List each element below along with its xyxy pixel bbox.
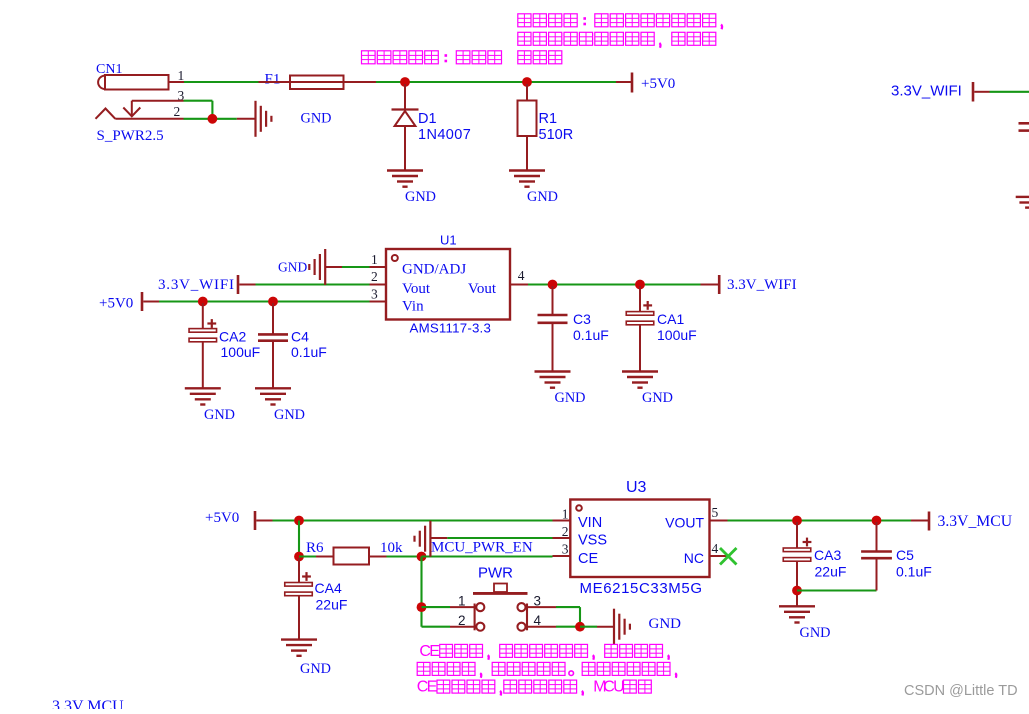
capacitor CA3 plus: [803, 541, 812, 543]
U1 pin1 stub: [370, 266, 387, 268]
diode D1 triangle: [395, 111, 416, 126]
svg-text:3.3V_WIFI: 3.3V_WIFI: [727, 277, 797, 293]
wire pin3 down: [211, 101, 213, 119]
svg-text:100uF: 100uF: [657, 327, 697, 343]
svg-text:22uF: 22uF: [815, 564, 847, 580]
svg-text:3.3V_MCU: 3.3V_MCU: [938, 513, 1013, 530]
port bar 3.3V_MCU: [928, 512, 931, 531]
resistor R1 body: [518, 101, 537, 137]
capacitor CA3 plates: [783, 548, 811, 552]
ground PWR sideways: [613, 609, 615, 645]
junction R1: [522, 77, 532, 87]
U1 pin4 stub: [510, 284, 528, 286]
svg-text:C3: C3: [573, 311, 591, 327]
svg-text:Vin: Vin: [402, 299, 424, 315]
svg-text:3: 3: [562, 542, 569, 557]
junction button pin1: [417, 602, 427, 612]
regulator U3 box: [570, 500, 709, 578]
ground CA1: [622, 370, 658, 372]
svg-text:3.3V MCU: 3.3V MCU: [52, 698, 124, 709]
wire CA3 to C5 bottom: [797, 589, 877, 591]
power port 3.3V_WIFI top right bar: [972, 82, 975, 102]
U1 pin2 stub: [370, 284, 387, 286]
ground R1: [509, 169, 545, 171]
ground CA2: [185, 387, 221, 389]
junction D1: [400, 77, 410, 87]
svg-text:GND: GND: [642, 390, 673, 406]
svg-text:2: 2: [458, 613, 466, 628]
svg-text:R6: R6: [306, 540, 324, 556]
wire junction to R6: [299, 555, 316, 557]
junction CA4 lead: [298, 558, 300, 583]
capacitor C5 lead: [876, 522, 878, 552]
U3 pin4 stub: [710, 555, 728, 557]
svg-text:F1: F1: [265, 72, 281, 88]
svg-text:CN1: CN1: [96, 62, 122, 77]
svg-text:CA2: CA2: [219, 329, 246, 345]
capacitor CA2 plus: [207, 322, 216, 324]
ground partial right edge: [1016, 196, 1029, 198]
svg-text:3.3V_WIFI: 3.3V_WIFI: [891, 83, 962, 100]
svg-text:1: 1: [178, 68, 185, 83]
capacitor CA3 lead: [796, 522, 798, 548]
fuse F1 lead line: [259, 81, 377, 83]
svg-text:R1: R1: [539, 111, 558, 127]
svg-text:GND: GND: [301, 111, 332, 127]
CN1 pin 3 lead: [132, 100, 184, 102]
junction R6 CA4: [294, 552, 304, 562]
svg-text:4: 4: [518, 268, 525, 283]
wire pin2: [184, 118, 237, 120]
wire MCU_PWR_EN to CE: [422, 555, 553, 557]
CN1 switch zigzag: [96, 109, 116, 119]
svg-text:GND: GND: [278, 260, 307, 275]
junction CA3 bottom: [792, 586, 802, 596]
svg-text:VIN: VIN: [578, 515, 602, 531]
wire down to button: [420, 557, 422, 627]
switch PWR right bracket: [526, 604, 528, 631]
capacitor C4 plates: [258, 333, 288, 336]
switch PWR contact circles: [476, 603, 484, 611]
svg-text:1: 1: [562, 507, 569, 522]
junction at CN1 ground: [208, 114, 218, 124]
wire 3.3V_WIFI top right: [974, 91, 989, 93]
capacitor C3 lead: [552, 286, 554, 315]
svg-text:CA4: CA4: [315, 580, 342, 596]
svg-text:GND: GND: [300, 661, 331, 677]
ground stem CN1: [237, 118, 256, 120]
svg-text:C4: C4: [291, 329, 309, 345]
capacitor partial right edge: [1019, 122, 1029, 125]
wire GND to pin1: [342, 266, 370, 268]
wire down to R6 row: [298, 521, 300, 557]
capacitor C4 lead: [272, 303, 274, 334]
wire R6 to junction: [387, 555, 418, 557]
port bar 3.3V_WIFI middle right: [718, 275, 721, 294]
fuse F1 body: [290, 76, 344, 90]
svg-text:GND: GND: [204, 407, 235, 423]
ground stem VSS: [430, 537, 447, 539]
capacitor CA1 lead bottom: [639, 325, 641, 372]
capacitor C3 plates: [538, 314, 568, 317]
svg-text:GND: GND: [527, 189, 558, 205]
ground CA4: [281, 638, 317, 640]
svg-text:GND: GND: [649, 616, 682, 632]
svg-text:100uF: 100uF: [221, 344, 261, 360]
diode D1 cathode bar: [392, 108, 419, 110]
U3 pin stubs left: [553, 520, 571, 522]
wire +5V0 to Vin: [143, 301, 159, 303]
wire VOUT rail: [728, 519, 912, 521]
junction CA1: [635, 280, 645, 290]
capacitor CA4 plates: [285, 583, 313, 587]
ground C4: [255, 387, 291, 389]
junction C4: [268, 297, 278, 307]
ground U1 pin1 sideways: [324, 249, 326, 285]
port bar 3.3V_WIFI middle left: [237, 275, 240, 294]
svg-text:VSS: VSS: [578, 533, 607, 549]
resistor R1 lead top: [526, 84, 528, 101]
note CE line2: [417, 662, 430, 675]
capacitor CA1 lead: [639, 286, 641, 312]
junction C3: [548, 280, 558, 290]
wire pin4 to port: [528, 283, 701, 285]
junction CA3: [792, 516, 802, 526]
svg-text:3: 3: [371, 287, 378, 302]
svg-text:5: 5: [712, 505, 719, 520]
ground stem U1 pin1: [325, 266, 342, 268]
svg-text:GND: GND: [555, 390, 586, 406]
svg-text:AMS1117-3.3: AMS1117-3.3: [410, 321, 492, 336]
svg-text:3.3V_WIFI: 3.3V_WIFI: [158, 277, 235, 293]
diode D1 lead bottom: [404, 126, 406, 171]
svg-text:1: 1: [458, 594, 466, 609]
ground U3 VSS sideways: [429, 521, 431, 557]
wire F1 to D1: [376, 81, 616, 83]
switch PWR actuator bar: [473, 592, 528, 595]
svg-text:+5V0: +5V0: [99, 296, 133, 312]
wire pin1 to F1: [184, 81, 259, 83]
svg-text:510R: 510R: [539, 127, 574, 143]
wire VSS: [447, 537, 552, 539]
svg-text:0.1uF: 0.1uF: [291, 344, 327, 360]
U1 pin1 indicator circle: [392, 255, 398, 261]
svg-text:CSDN @Little TD: CSDN @Little TD: [904, 683, 1018, 699]
svg-text:ME6215C33M5G: ME6215C33M5G: [580, 580, 703, 597]
CN1 pin 1 lead: [169, 81, 185, 83]
switch PWR left bracket: [474, 604, 476, 631]
svg-text:0.1uF: 0.1uF: [896, 564, 932, 580]
note resistor purpose line3: [518, 51, 531, 64]
ground D1: [387, 169, 423, 171]
svg-text:C5: C5: [896, 547, 914, 563]
svg-text:E: E: [427, 679, 438, 696]
CN1 pin 2 lead: [115, 118, 183, 120]
wire 3.3V_WIFI to Vout pin2: [239, 284, 255, 286]
op-amp U1 box: [386, 249, 510, 320]
wire pin3 down: [579, 607, 581, 627]
capacitor CA1 plates: [626, 312, 654, 316]
wire pin3 right: [527, 606, 556, 608]
svg-text:MCU_PWR_EN: MCU_PWR_EN: [431, 540, 533, 556]
wire to pin2: [422, 626, 451, 628]
capacitor C4 lead bottom: [272, 342, 274, 388]
svg-text:0.1uF: 0.1uF: [573, 327, 609, 343]
svg-text:Vout: Vout: [402, 281, 431, 297]
note resistor purpose line2: [518, 32, 531, 45]
ground CN1 sideways: [254, 101, 256, 137]
capacitor CA2 plates: [189, 329, 217, 333]
capacitor CA4 plus: [302, 575, 311, 577]
no-connect X on pin4: [720, 548, 737, 565]
svg-text:CA3: CA3: [814, 547, 841, 563]
capacitor C5 lead bottom: [876, 560, 878, 591]
svg-text:+5V0: +5V0: [205, 510, 239, 526]
resistor R6 lead right: [369, 556, 387, 558]
note resistor purpose line1: [518, 14, 531, 27]
svg-text:2: 2: [174, 104, 181, 119]
svg-text:PWR: PWR: [478, 565, 513, 582]
svg-text:S_PWR2.5: S_PWR2.5: [97, 128, 164, 144]
svg-text:U3: U3: [626, 479, 647, 496]
wire +5V0 to VIN: [256, 520, 272, 522]
wire pin3: [184, 100, 213, 102]
note diode purpose: [362, 51, 376, 64]
junction CA2: [198, 297, 208, 307]
svg-text:10k: 10k: [380, 540, 403, 556]
svg-text:2: 2: [562, 524, 569, 539]
junction C5: [872, 516, 882, 526]
power port +5V0 bar: [631, 73, 634, 93]
capacitor CA2 lead: [202, 303, 204, 329]
svg-text:GND: GND: [405, 189, 436, 205]
capacitor CA4 lead bottom: [298, 596, 300, 640]
svg-text:4: 4: [712, 541, 719, 556]
svg-text:GND: GND: [800, 625, 831, 641]
svg-text:+5V0: +5V0: [641, 76, 675, 92]
svg-text:NC: NC: [684, 550, 704, 566]
svg-text:CE: CE: [578, 551, 598, 567]
ground CA3: [779, 605, 815, 607]
resistor R6 body: [334, 548, 370, 565]
wire to +5V0 port: [616, 81, 632, 83]
connector CN1 barrel: [105, 75, 169, 90]
svg-text:VOUT: VOUT: [665, 515, 704, 531]
svg-text:D1: D1: [418, 111, 437, 127]
switch PWR plunger: [494, 584, 507, 593]
diode D1 lead top: [404, 84, 406, 110]
svg-text:U1: U1: [440, 233, 457, 248]
svg-text:1: 1: [371, 252, 378, 267]
junction +5V0 bottom: [294, 516, 304, 526]
svg-text:Vout: Vout: [468, 281, 497, 297]
svg-text:CA1: CA1: [657, 311, 684, 327]
U1 pin3 stub: [370, 301, 387, 303]
capacitor CA3 lead bottom: [796, 561, 798, 606]
svg-text:2: 2: [371, 269, 378, 284]
ground C3: [535, 370, 571, 372]
capacitor CA1 plus: [643, 304, 652, 306]
junction MCU_PWR_EN: [417, 552, 427, 562]
svg-text:1N4007: 1N4007: [418, 127, 471, 143]
wire pin4 right: [527, 626, 556, 628]
U3 pin1 indicator circle: [576, 505, 582, 511]
svg-text:22uF: 22uF: [316, 597, 348, 613]
svg-text:E: E: [429, 643, 440, 660]
U3 pin5 stub: [710, 520, 728, 522]
svg-text:GND: GND: [274, 407, 305, 423]
wire to PWR ground: [580, 626, 597, 628]
wire to pin1: [422, 606, 451, 608]
svg-text:GND/ADJ: GND/ADJ: [402, 262, 466, 278]
CN1 switch arrow: [131, 101, 133, 116]
junction button output: [575, 622, 585, 632]
capacitor C3 lead bottom: [552, 324, 554, 372]
capacitor C5 plates: [861, 550, 892, 553]
resistor R1 lead bottom: [526, 136, 528, 171]
capacitor CA2 lead bottom: [202, 342, 204, 389]
